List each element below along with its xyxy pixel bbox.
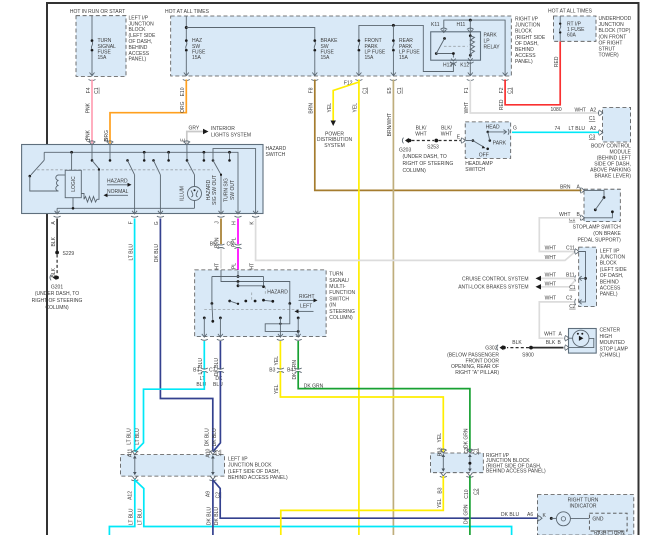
svg-text:WHT: WHT [575,107,586,113]
svg-text:CRUISE CONTROL SYSTEM: CRUISE CONTROL SYSTEM [462,276,529,282]
svg-text:DK GRN: DK GRN [464,428,470,448]
wire DK BLU from TS to connector C7 [214,341,220,376]
svg-text:PANEL): PANEL) [515,59,533,65]
svg-text:A12: A12 [128,491,134,500]
svg-text:DK BLU: DK BLU [154,244,160,262]
svg-text:S253: S253 [427,144,439,150]
svg-text:A2: A2 [590,126,596,132]
wire DK BLU from hazard G to junction block A10 [154,219,213,452]
svg-text:E5: E5 [387,87,393,93]
svg-text:15A: 15A [192,55,202,61]
HAZARD / NORMAL labels [104,178,132,197]
svg-text:F8: F8 [309,87,315,93]
wire LT BLU from A12 right branch to right (off page bottom) [135,480,512,535]
svg-text:C11: C11 [566,245,575,251]
connector A11 entry / A12 exit [128,448,139,499]
svg-text:RED: RED [499,99,505,110]
svg-text:UNDERHOOD: UNDERHOOD [599,16,632,22]
connector K12 [460,55,473,75]
junction block internal wire C11 to B11 to C2 [579,252,587,305]
svg-text:JUNCTION: JUNCTION [600,255,626,261]
svg-text:LT BLU: LT BLU [135,428,141,445]
wire WHT stoplamp B to junction block C11 [539,212,581,251]
svg-text:BEHIND: BEHIND [600,279,619,285]
wire BLK/WHT dashed S253 to E [439,125,461,140]
wire WHT from B5 to turn signal switch [215,248,221,274]
svg-text:LT BLU: LT BLU [126,428,132,445]
svg-text:G302: G302 [485,346,497,352]
inline connector B5 [210,242,225,249]
inline connector B7 [193,368,208,389]
switch: STOPLAMP SWITCH [569,187,622,243]
svg-text:S229: S229 [63,251,75,257]
svg-text:FUNCTION: FUNCTION [329,290,355,296]
wire YEL from TS to connector B3 [274,341,280,370]
wire BLK dashed to G302 [507,340,529,348]
svg-text:C2: C2 [216,449,222,456]
switch: TURN SIGNAL / MULTIFUNCTION SWITCH [195,270,356,337]
connector C11 [545,245,579,260]
wire labels LT BLU / DK BLU above junction block [126,428,218,446]
svg-text:C2: C2 [569,304,576,310]
svg-text:RIGHT TURN: RIGHT TURN [594,531,625,535]
svg-text:F2: F2 [499,87,505,93]
bus wire from HAZ fuse to BRAKE fuse [186,28,314,41]
svg-text:DK: DK [215,376,223,382]
svg-text:C1: C1 [473,448,479,455]
lamp: RIGHT TURN INDICATOR [537,495,633,535]
svg-text:HOT AT ALL TIMES: HOT AT ALL TIMES [548,9,593,15]
fuse: FRONT PARK LP FUSE 15A [356,38,386,75]
svg-text:WHT: WHT [441,132,452,138]
svg-text:PANEL): PANEL) [600,292,618,298]
svg-text:JUNCTION: JUNCTION [599,22,625,28]
svg-text:A11: A11 [128,448,134,457]
svg-text:C1: C1 [362,87,368,94]
svg-text:OFF: OFF [479,152,489,158]
labels HAZARD SIG SW OUT / TURN SIG SW OUT [206,175,236,205]
svg-text:HAZARD: HAZARD [266,146,287,152]
connector E5 / C1 below box [387,80,403,94]
svg-text:RELAY: RELAY [484,45,501,51]
svg-text:S900: S900 [522,353,534,359]
svg-text:LEFT: LEFT [300,303,312,309]
connector K11 [431,22,447,32]
svg-text:BLK: BLK [512,340,522,346]
svg-text:TOWER): TOWER) [599,53,620,59]
svg-text:15A: 15A [399,55,409,61]
stoplamp switch internals [585,190,614,217]
svg-text:RIGHT “A” PILLAR): RIGHT “A” PILLAR) [455,370,499,376]
svg-text:A9: A9 [206,491,212,497]
svg-text:BEHIND ACCESS PANEL): BEHIND ACCESS PANEL) [228,475,288,481]
svg-text:A10: A10 [206,448,212,457]
svg-text:LT BLU: LT BLU [128,244,134,261]
inline connector B4 [287,368,302,374]
svg-text:DK GRN: DK GRN [464,504,470,524]
lamp ILLUM [180,175,202,209]
connector F12 / C1 below box [344,80,368,94]
svg-text:SIGNAL/: SIGNAL/ [329,278,349,284]
svg-text:WHT: WHT [545,255,556,261]
hazard switch bottom output arrows A F G J H K [51,211,259,225]
svg-text:YEL: YEL [327,103,333,113]
svg-text:74: 74 [555,126,561,132]
svg-text:OF DASH,: OF DASH, [600,273,624,279]
svg-text:BRAKE LEVER): BRAKE LEVER) [594,174,631,180]
svg-text:STOPLAMP SWITCH: STOPLAMP SWITCH [573,224,622,230]
splice S900 [522,346,534,359]
svg-text:PEDAL SUPPORT): PEDAL SUPPORT) [577,238,621,244]
svg-text:DK BLU: DK BLU [204,428,210,446]
svg-text:PNK: PNK [86,102,92,113]
fuse: RT I/P 1 FUSE 60A [554,16,585,67]
svg-text:INDICATOR: INDICATOR [569,504,596,510]
svg-text:15A: 15A [321,55,331,61]
connector E10 below box [180,80,190,97]
label: UNDERHOOD JUNCTION BLOCK location [599,16,632,59]
svg-text:BRN: BRN [560,185,571,191]
svg-text:C1: C1 [397,87,403,94]
svg-text:BLOCK (TOP): BLOCK (TOP) [599,28,631,34]
svg-text:WHT: WHT [415,132,426,138]
ground G203 [399,138,453,174]
svg-text:MULTI-: MULTI- [329,284,346,290]
svg-text:RIGHT OF STEERING: RIGHT OF STEERING [403,161,454,167]
relay: PARK LP RELAY [431,32,500,60]
ground G302 [447,345,506,376]
svg-text:DK BLU: DK BLU [214,507,220,525]
svg-text:YEL: YEL [274,356,280,366]
svg-text:MOUNTED: MOUNTED [600,340,626,346]
svg-text:ACCESS: ACCESS [515,53,536,59]
connector F2 / C1 below box [499,80,513,94]
label: RIGHT I/P JUNCTION BLOCK location [515,17,546,66]
hazard switch internal bus [44,151,238,214]
wire RED from F2 to RT I/P 1 FUSE [499,41,560,110]
svg-text:WHT: WHT [544,332,555,338]
svg-text:OF RIGHT: OF RIGHT [599,40,623,46]
svg-text:F4: F4 [86,87,92,93]
svg-text:A2: A2 [590,107,596,113]
svg-text:LOGIC: LOGIC [71,176,77,192]
wire BRN/WHT long vertical from E5 down (off page) [387,80,393,535]
svg-text:(ON FRONT: (ON FRONT [599,34,627,40]
svg-text:DK BLU: DK BLU [207,507,213,525]
connector F1 below box [464,80,474,94]
svg-text:C2: C2 [566,295,573,301]
svg-text:PANEL): PANEL) [129,57,147,63]
connector C3 entry / C10 exit [464,447,479,498]
svg-text:LT BLU: LT BLU [138,508,144,525]
svg-text:A6: A6 [527,512,533,518]
wire BLK from hazard A to ground [51,219,57,253]
svg-text:(RIGHT SIDE: (RIGHT SIDE [515,35,546,41]
svg-text:NORMAL: NORMAL [107,189,129,195]
svg-text:RIGHT I/P: RIGHT I/P [515,17,539,23]
svg-text:ILLUM: ILLUM [180,186,186,201]
logic module [65,152,81,208]
wire LT BLU from B7 to junction block A11 [135,371,205,452]
splice S229 [55,251,74,257]
svg-text:ANTI-LOCK BRAKES SYSTEM: ANTI-LOCK BRAKES SYSTEM [458,285,528,291]
svg-text:C7: C7 [209,368,216,374]
fuse: HAZ SW FUSE 15A [184,16,206,76]
svg-text:BLK: BLK [51,236,57,246]
wire WHT 1080 from F1 to body control module A2 [464,80,599,114]
wire LT BLU from hazard F to junction block A11 [128,219,134,452]
wire BRN from hazard J to connector B5 [215,219,221,249]
svg-text:TURN: TURN [329,272,343,278]
svg-text:BLU: BLU [213,382,223,388]
label: LEFT I/P JUNCTION BLOCK location [129,15,157,62]
svg-text:RIGHT OF STEERING: RIGHT OF STEERING [32,298,83,304]
svg-text:HOT IN RUN OR START: HOT IN RUN OR START [70,9,125,15]
svg-text:BLOCK: BLOCK [600,261,618,267]
junction block: LEFT I/P JUNCTION BLOCK (bottom) [121,455,288,482]
wire YEL long vertical from F12 down (off page) [353,80,359,535]
svg-text:SWITCH: SWITCH [266,152,286,158]
svg-text:LEFT I/P: LEFT I/P [600,248,620,254]
svg-text:(LEFT SIDE OF DASH,: (LEFT SIDE OF DASH, [228,469,280,475]
wire GRY to interior lights system [181,126,252,146]
svg-text:B4: B4 [287,368,293,374]
junction block: RIGHT I/P JUNCTION BLOCK (top, large fuse/relay box) [165,9,511,76]
svg-text:BLK: BLK [546,340,556,346]
svg-text:DK BLU: DK BLU [501,512,519,518]
svg-text:SYSTEM: SYSTEM [324,143,345,149]
svg-text:H11: H11 [457,22,466,28]
svg-text:(ON BRAKE: (ON BRAKE [593,231,621,237]
svg-text:YEL: YEL [437,433,443,443]
svg-text:B3: B3 [269,368,275,374]
junction block: LEFT I/P JUNCTION BLOCK (top left, fuse box) [70,9,126,76]
ground block GND inside right turn indicator [589,513,627,535]
wire LT BLU from TS to connector B7 [198,341,204,375]
svg-text:C1: C1 [94,87,100,94]
svg-text:BLK/: BLK/ [441,125,452,131]
fuse: BRAKE SW FUSE 15A [312,38,338,75]
svg-text:PARK: PARK [493,141,507,147]
wire BLK dashed to G201 [51,255,57,278]
inline connector C5 [226,242,241,249]
svg-text:WHT: WHT [545,245,556,251]
svg-text:OF DASH,: OF DASH, [515,41,539,47]
svg-text:JUNCTION BLOCK: JUNCTION BLOCK [228,463,272,469]
svg-text:K12: K12 [460,63,469,69]
ground G201 [32,275,83,311]
connector C2 and wire WHT to CHMSL A [539,295,576,338]
svg-text:F: F [128,221,134,224]
svg-text:JUNCTION: JUNCTION [515,23,541,29]
switch: HAZARD SWITCH box [22,145,287,214]
wire LT BLU 74 from headlamp switch G to BCM A2 [512,126,599,132]
svg-text:(IN: (IN [329,303,336,309]
inline connector B3 [269,368,284,394]
wire PPL from C5 to turn signal switch [232,248,238,272]
svg-text:DK GRN: DK GRN [304,383,324,389]
hazard switch ground return wire [57,207,194,214]
connector F4 / C1 below box [86,80,100,94]
svg-text:1080: 1080 [551,107,562,113]
svg-text:INTERIOR: INTERIOR [211,126,235,132]
svg-text:HEADLAMP: HEADLAMP [465,161,493,167]
svg-text:LT BLU: LT BLU [129,508,135,525]
wire BLK from CHMSL B to splice S900 [531,340,564,348]
svg-text:COLUMN): COLUMN) [329,315,353,321]
svg-text:ACCESS: ACCESS [600,286,621,292]
svg-text:SWITCH: SWITCH [329,296,349,302]
connector A10 entry / A9 exit [206,448,222,498]
svg-text:C1: C1 [589,116,596,122]
svg-text:G203: G203 [399,147,411,153]
fuse: REAR PARK LP FUSE 15A [391,25,421,75]
svg-text:H12: H12 [443,63,452,69]
svg-text:BLK/: BLK/ [416,125,427,131]
svg-text:LT BLU: LT BLU [569,126,586,132]
switch: HEADLAMP SWITCH [461,122,511,173]
svg-text:G201: G201 [51,284,63,290]
connector B13 entry / B3 exit [437,447,446,493]
svg-text:B11: B11 [566,272,575,278]
wire DK BLU from A9 to right turn indicator A6 [213,480,538,525]
connector H11 [457,20,474,32]
hazard switch blades [92,149,256,214]
svg-text:15A: 15A [365,55,375,61]
wire DK BLU from C7 to junction block A10 [213,371,221,452]
relay internal wire switch to H12 [436,54,453,58]
svg-text:G: G [154,221,160,225]
label: power distribution system [317,131,353,149]
wire YEL from B3 to junction block B13 [280,371,443,452]
wire PNK from F4 to hazard switch C [86,80,96,146]
bus wire from K11/H11 to F2 feed [444,20,505,75]
svg-text:WHT: WHT [545,272,556,278]
svg-text:LIGHTS SYSTEM: LIGHTS SYSTEM [211,132,251,138]
wire BRN from F8 to stoplamp switch A [309,80,582,191]
wire DK GRN from B4 to junction block C3 [298,371,470,452]
svg-text:TURN SIG: TURN SIG [224,178,230,202]
inline connector C7 [209,368,224,389]
svg-text:GRY: GRY [189,126,200,132]
wire ORG from E10 to hazard switch B [104,80,187,146]
svg-text:BLOCK: BLOCK [515,29,533,35]
svg-text:K11: K11 [431,22,440,28]
wire YEL branch to power distribution system [327,80,359,127]
svg-text:HEAD: HEAD [486,124,500,130]
svg-text:C1: C1 [507,87,513,94]
svg-text:STRUT: STRUT [599,47,616,53]
relay coil [469,33,475,57]
svg-text:60A: 60A [567,33,577,39]
connector F8 below box [309,80,319,94]
svg-text:STEERING: STEERING [329,309,355,315]
lamp: CENTER HIGH MOUNTED STOP LAMP (CHMSL) [565,328,629,359]
svg-text:C3: C3 [589,134,596,140]
svg-text:(CHMSL): (CHMSL) [600,353,621,359]
svg-text:15A: 15A [98,55,108,61]
svg-text:C1: C1 [569,285,576,291]
svg-text:YEL: YEL [274,384,280,394]
headlamp switch internals [466,124,517,158]
svg-text:BEHIND ACCESS PANEL): BEHIND ACCESS PANEL) [486,469,546,475]
resistor (hazard switch) [81,169,100,203]
svg-text:SWITCH: SWITCH [465,167,485,173]
svg-text:GND: GND [592,516,604,522]
svg-text:RIGHT TURN: RIGHT TURN [568,498,599,504]
svg-text:HOT AT ALL TIMES: HOT AT ALL TIMES [165,9,210,15]
svg-text:HAZARD: HAZARD [267,289,288,295]
wire DK GRN from TS to connector B4 [292,341,298,379]
junction block: RIGHT I/P JUNCTION BLOCK (bottom) [431,453,546,475]
wire LT BLU from A12 left branch to lower left (off page) [109,480,134,535]
wire PPL from hazard H to connector C5 [232,219,238,247]
svg-text:DK BLU: DK BLU [212,428,218,446]
svg-text:(LEFT SIDE: (LEFT SIDE [600,267,628,273]
svg-text:COLUMN): COLUMN) [403,168,427,174]
relay switch contact [435,37,468,55]
svg-text:BRN/WHT: BRN/WHT [387,113,393,136]
svg-text:B7: B7 [193,368,199,374]
wire DK BLU from A9 straight down (off page) [207,480,213,535]
mechanical linkage dashed line [37,169,213,171]
bus wire from FRONT PARK fuse to REAR PARK fuse and relay H12 loop [359,25,454,71]
svg-text:(UNDER DASH, TO: (UNDER DASH, TO [403,154,447,160]
module: BODY CONTROL MODULE [589,108,632,180]
turn signal switch bottom output arrows [201,334,302,340]
wire BLK/WHT dashed G203 to S253 to headlamp switch E [412,125,435,140]
svg-text:(UNDER DASH, TO: (UNDER DASH, TO [35,291,79,297]
turn signal switch internals [203,270,318,337]
svg-text:F1: F1 [464,87,470,93]
svg-text:H: H [232,221,238,225]
svg-text:C2: C2 [473,488,479,495]
svg-text:C3: C3 [464,447,470,454]
wire WHT from hazard K to junction block C11 [249,219,574,275]
svg-text:B5: B5 [210,242,216,248]
fuse F4: TURN SIGNAL FUSE 15A [90,16,117,76]
svg-text:SW OUT: SW OUT [230,180,236,200]
svg-text:LEFT I/P: LEFT I/P [228,456,248,462]
wire YEL from B3 down-left (off page) [281,476,444,535]
svg-text:HIGH: HIGH [600,334,613,340]
svg-text:G: G [513,126,517,132]
left switch + coil + LOGIC [29,152,66,191]
connector B11 to cruise control / ABS [458,272,576,291]
svg-text:HAZARD: HAZARD [206,179,212,200]
svg-text:BEHIND: BEHIND [515,47,534,53]
svg-text:COLUMN): COLUMN) [45,305,69,311]
connector H12 [443,59,457,69]
svg-text:HAZARD: HAZARD [107,178,128,184]
splice S253 [427,139,439,151]
svg-text:BRN: BRN [309,103,315,114]
svg-text:YEL: YEL [437,498,443,508]
hazard switch output verticals [135,174,222,214]
svg-text:YEL: YEL [353,103,359,113]
svg-text:C5: C5 [226,242,233,248]
junction block: LEFT I/P JUNCTION BLOCK (right middle) [579,247,628,307]
junction block: UNDERHOOD JUNCTION BLOCK (RT I/P fuse box) [548,9,596,42]
svg-text:WHT: WHT [545,295,556,301]
svg-text:RIGHT: RIGHT [299,294,315,300]
svg-text:ORG: ORG [180,101,186,113]
svg-text:E10: E10 [180,87,186,96]
svg-text:WHT: WHT [464,102,470,113]
svg-text:CENTER: CENTER [600,328,621,334]
svg-text:STOP LAMP: STOP LAMP [600,346,629,352]
hazard switch entry stubs [91,145,231,162]
